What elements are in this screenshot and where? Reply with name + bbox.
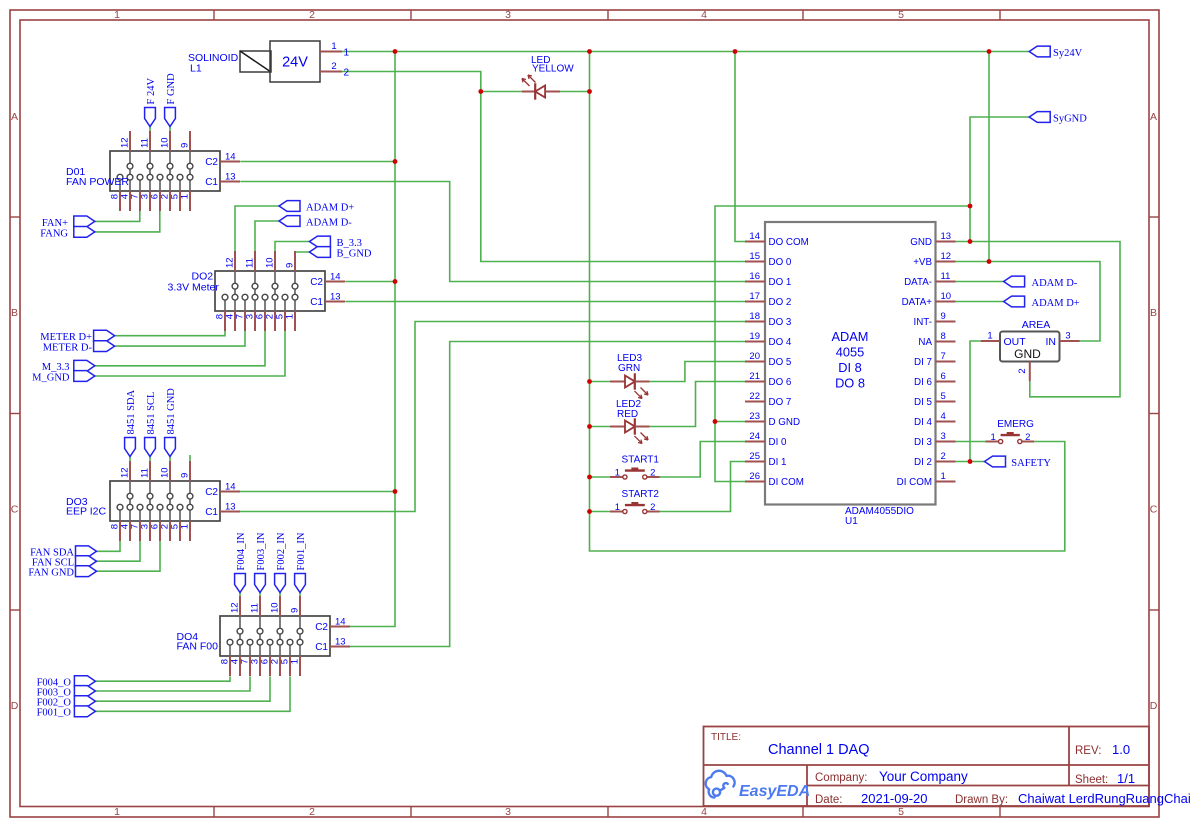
svg-text:1: 1 xyxy=(285,314,296,319)
wire F001_O flag to DO4 pin 5 xyxy=(95,677,290,712)
junction at 589.5,381.5 xyxy=(587,379,592,384)
junction at 395,491.5 xyxy=(393,489,398,494)
svg-text:DI 6: DI 6 xyxy=(914,377,933,388)
net flag F001_IN xyxy=(295,574,306,593)
net flag METER D- xyxy=(94,341,115,352)
svg-text:ADAM D-: ADAM D- xyxy=(1032,278,1078,289)
svg-text:DI 1: DI 1 xyxy=(769,457,787,468)
svg-text:4: 4 xyxy=(941,411,946,422)
net flag FAN SDA xyxy=(76,546,97,557)
svg-text:F001_O: F001_O xyxy=(37,708,72,719)
svg-text:DO COM: DO COM xyxy=(769,237,809,248)
junction at 989,261.5 xyxy=(987,259,992,264)
svg-text:2: 2 xyxy=(309,9,315,21)
svg-text:3: 3 xyxy=(941,431,946,442)
svg-text:Sheet:: Sheet: xyxy=(1075,774,1108,786)
title block xyxy=(704,727,1150,807)
svg-text:9: 9 xyxy=(180,473,191,478)
svg-text:1.0: 1.0 xyxy=(1112,742,1130,757)
net flag METER D+ xyxy=(94,330,115,341)
svg-text:Company:: Company: xyxy=(815,772,867,784)
svg-text:5: 5 xyxy=(898,9,904,21)
LED LED2 RED xyxy=(610,418,650,443)
net flag FAN+ xyxy=(74,216,95,227)
svg-text:12: 12 xyxy=(230,602,241,613)
connector DO3 EEP I2C xyxy=(110,461,240,541)
svg-text:DO 1: DO 1 xyxy=(769,277,792,288)
svg-text:F001_IN: F001_IN xyxy=(296,532,307,570)
svg-text:11: 11 xyxy=(245,258,256,268)
svg-text:C1: C1 xyxy=(310,297,323,308)
push button START1 xyxy=(610,468,660,479)
wire DO4 C1 to ADAM DO 4 pin 19 xyxy=(350,342,745,647)
junction at 589.5,426.5 xyxy=(587,424,592,429)
svg-text:9: 9 xyxy=(290,608,301,613)
net flag ADAM D+ xyxy=(279,201,300,212)
junction at 970,206 xyxy=(968,204,973,209)
connector DO2 3.3V Meter xyxy=(215,251,345,331)
svg-text:C2: C2 xyxy=(205,487,218,498)
U1 right pin 1 DI COM xyxy=(936,481,956,483)
svg-text:13: 13 xyxy=(225,502,236,513)
U1 left pin 20 DO 5 xyxy=(745,361,765,363)
net flag F002_IN xyxy=(275,574,286,593)
svg-text:Date:: Date: xyxy=(815,794,843,806)
svg-text:14: 14 xyxy=(330,272,341,283)
LED LED3 GRN xyxy=(610,373,650,398)
op-amp U1 ADAM4055DIO IC body xyxy=(765,222,936,505)
net flag 8451 SDA xyxy=(125,438,136,457)
connector DO4 FAN F00 xyxy=(220,596,350,676)
svg-text:B_GND: B_GND xyxy=(337,248,372,259)
svg-text:Chaiwat LerdRungRuangChai: Chaiwat LerdRungRuangChai xyxy=(1018,791,1191,806)
U1 right pin 13 GND xyxy=(936,241,956,243)
svg-text:B: B xyxy=(1150,307,1157,319)
wire SyGND branch to DI COM pin 26 xyxy=(715,206,970,482)
wire solenoid pin2 to LED-yellow junction and down to DO 0 line xyxy=(342,72,745,262)
svg-text:DO 5: DO 5 xyxy=(769,357,792,368)
wire FAN+ flag to D01 pin 7 xyxy=(95,211,140,221)
svg-text:YELLOW: YELLOW xyxy=(532,64,574,75)
wire LED3 cathode to ADAM DO 5 pin 20 xyxy=(650,362,745,382)
wire GND pin13 to AREA GND pin2 xyxy=(956,242,1121,397)
svg-text:14: 14 xyxy=(225,482,236,493)
net flag SAFETY xyxy=(985,456,1006,467)
net flag ADAM D- xyxy=(279,216,300,227)
svg-text:5: 5 xyxy=(941,391,946,402)
svg-text:F004_IN: F004_IN xyxy=(236,532,247,570)
svg-text:RED: RED xyxy=(617,409,638,420)
svg-text:7: 7 xyxy=(941,351,946,362)
svg-text:REV:: REV: xyxy=(1075,745,1101,757)
svg-text:F 24V: F 24V xyxy=(146,78,157,105)
U1 left pin 15 DO 0 xyxy=(745,261,765,263)
svg-text:D: D xyxy=(1150,700,1158,712)
wire LED2 cathode to ADAM DO 6 pin 21 xyxy=(650,382,745,427)
wire Sy24V drop to +VB line xyxy=(988,52,990,262)
solenoid L1 24V body box xyxy=(270,41,320,82)
svg-text:DO 0: DO 0 xyxy=(769,257,792,268)
svg-text:14: 14 xyxy=(225,152,236,163)
net flag FAN GND xyxy=(76,566,97,577)
svg-text:A: A xyxy=(11,111,18,123)
AREA GND pin 2 stub xyxy=(1029,362,1031,382)
junction at 735,51.5 xyxy=(733,49,738,54)
wire AREA GND OUT pin1 down to SAFETY net xyxy=(970,341,981,462)
svg-text:+VB: +VB xyxy=(913,257,932,268)
svg-text:ADAM: ADAM xyxy=(832,329,869,344)
svg-text:DO 3: DO 3 xyxy=(769,317,792,328)
svg-text:F GND: F GND xyxy=(166,73,177,105)
svg-text:D GND: D GND xyxy=(769,417,801,428)
U1 right pin 9 INT- xyxy=(936,321,956,323)
wire FAN SCL flag to DO3 pin 7 xyxy=(97,541,141,561)
svg-text:2: 2 xyxy=(1017,368,1028,373)
svg-text:C1: C1 xyxy=(205,507,218,518)
svg-text:1: 1 xyxy=(180,194,191,199)
svg-text:DATA-: DATA- xyxy=(904,277,932,288)
wire DO2 C2 to 24V vertical xyxy=(345,281,395,283)
svg-text:DI 7: DI 7 xyxy=(914,357,932,368)
svg-text:1: 1 xyxy=(331,41,336,52)
svg-text:2: 2 xyxy=(650,502,655,513)
net flag SyGND xyxy=(1029,112,1050,123)
AREA GND pin 3 IN stub xyxy=(1060,340,1080,342)
svg-text:F002_IN: F002_IN xyxy=(276,532,287,570)
wire ADAM D+ flag to DO2 pin 12 xyxy=(235,206,279,251)
solenoid pin 2 stub xyxy=(320,71,342,73)
svg-text:10: 10 xyxy=(265,257,276,268)
wire LED2 anode from x590 rail xyxy=(590,426,611,428)
wire DO COM pin14 drop from top rail xyxy=(735,52,745,242)
junction at 395,51.5 xyxy=(393,49,398,54)
connector D01 FAN POWER xyxy=(110,131,240,211)
svg-text:17: 17 xyxy=(749,291,760,302)
svg-text:1: 1 xyxy=(615,468,620,479)
svg-text:2021-09-20: 2021-09-20 xyxy=(861,791,928,806)
net flag F004_IN xyxy=(235,574,246,593)
svg-text:Channel 1 DAQ: Channel 1 DAQ xyxy=(768,742,870,758)
push button EMERG xyxy=(985,433,1034,444)
U1 left pin 24 DI 0 xyxy=(745,441,765,443)
svg-text:TITLE:: TITLE: xyxy=(711,732,741,743)
junction at 589.5,477 xyxy=(587,475,592,480)
U1 right pin 5 DI 5 xyxy=(936,401,956,403)
svg-text:Your Company: Your Company xyxy=(879,769,968,784)
svg-text:25: 25 xyxy=(749,451,760,462)
wire flag F003_IN to DO4 pin 11 stub xyxy=(259,593,261,598)
svg-text:START1: START1 xyxy=(622,455,660,466)
svg-text:9: 9 xyxy=(285,263,296,268)
solenoid L1 coil box xyxy=(240,51,271,72)
svg-text:3: 3 xyxy=(505,9,511,21)
svg-text:13: 13 xyxy=(335,637,346,648)
svg-text:19: 19 xyxy=(749,331,760,342)
wire LED3 anode from x590 rail xyxy=(590,381,611,383)
svg-text:1: 1 xyxy=(180,524,191,529)
wire B_GND flag to DO2 pin 9 xyxy=(295,252,309,253)
svg-text:ADAM D+: ADAM D+ xyxy=(1032,298,1080,309)
svg-text:FAN GND: FAN GND xyxy=(28,568,74,579)
svg-text:EasyEDA: EasyEDA xyxy=(739,783,810,800)
net flag F 24V xyxy=(145,108,156,127)
svg-text:1: 1 xyxy=(344,48,350,59)
wire flag 8451 SDA to DO3 pin 12 stub xyxy=(129,457,131,463)
svg-text:DI 5: DI 5 xyxy=(914,397,933,408)
svg-text:15: 15 xyxy=(749,251,760,262)
svg-text:START2: START2 xyxy=(622,489,660,500)
svg-text:1: 1 xyxy=(615,502,620,513)
svg-text:DI COM: DI COM xyxy=(897,477,932,488)
net flag F004_O xyxy=(74,676,95,687)
svg-text:11: 11 xyxy=(140,138,151,148)
svg-text:2: 2 xyxy=(344,68,350,79)
svg-text:1: 1 xyxy=(941,471,946,482)
svg-text:M_GND: M_GND xyxy=(32,372,70,383)
svg-text:10: 10 xyxy=(160,137,171,148)
svg-text:DI 8: DI 8 xyxy=(838,360,861,375)
svg-text:GND: GND xyxy=(910,237,932,248)
svg-text:F003_IN: F003_IN xyxy=(256,532,267,570)
svg-text:FAN POWER: FAN POWER xyxy=(66,176,129,188)
wire flag F 24V to D01 pin 11 stub xyxy=(149,127,151,133)
junction at 395,281.5 xyxy=(393,279,398,284)
wire flag F GND to D01 pin 10 stub xyxy=(169,127,171,133)
net flag FANG xyxy=(74,227,95,238)
net flag M_3.3 xyxy=(74,360,95,371)
wire DO3 C1 to ADAM DO 3 pin 18 xyxy=(240,322,745,512)
svg-text:U1: U1 xyxy=(845,516,858,527)
net flag F002_O xyxy=(74,696,95,707)
wire x590 vertical rail down to bottom rail to EMERG pin2 xyxy=(590,52,1065,552)
svg-text:21: 21 xyxy=(749,371,760,382)
wire D01 C1 to ADAM DO 1 pin 16 xyxy=(240,182,745,282)
junction at 480.8,91.5 xyxy=(478,89,483,94)
net flag 8451 GND xyxy=(165,438,176,457)
svg-text:4055: 4055 xyxy=(836,345,864,360)
wire DI 3 pin3 to EMERG pin1 xyxy=(956,441,986,443)
svg-text:C2: C2 xyxy=(315,622,328,633)
svg-text:3: 3 xyxy=(505,806,511,818)
junction at 589.5,51.5 xyxy=(587,49,592,54)
U1 left pin 19 DO 4 xyxy=(745,341,765,343)
U1 left pin 18 DO 3 xyxy=(745,321,765,323)
svg-text:9: 9 xyxy=(180,143,191,148)
svg-text:DI 0: DI 0 xyxy=(769,437,788,448)
svg-text:SyGND: SyGND xyxy=(1053,113,1087,124)
svg-text:26: 26 xyxy=(749,471,760,482)
net flag B_GND xyxy=(309,247,330,258)
svg-text:ADAM D-: ADAM D- xyxy=(306,217,352,228)
wire LED yellow anode link from junction xyxy=(481,91,522,93)
U1 right pin 2 DI 2 xyxy=(936,461,956,463)
svg-text:DO 4: DO 4 xyxy=(769,337,792,348)
U1 left pin 21 DO 6 xyxy=(745,381,765,383)
svg-text:8451 SDA: 8451 SDA xyxy=(126,389,137,434)
svg-text:8451 SCL: 8451 SCL xyxy=(146,392,157,435)
svg-text:DO 7: DO 7 xyxy=(769,397,792,408)
svg-text:13: 13 xyxy=(941,231,952,242)
wire F003_O flag to DO4 pin 7 xyxy=(95,677,250,692)
svg-text:AREA: AREA xyxy=(1022,319,1051,331)
svg-text:C1: C1 xyxy=(205,177,218,188)
svg-text:SAFETY: SAFETY xyxy=(1011,458,1051,469)
svg-text:23: 23 xyxy=(749,411,760,422)
junction at 589.5,91.5 xyxy=(587,89,592,94)
junction at 715,421.5 xyxy=(713,419,718,424)
svg-text:Drawn By:: Drawn By: xyxy=(955,794,1008,806)
wire DI 2 pin2 to SAFETY flag xyxy=(956,461,985,463)
wire flag F001_IN to DO4 pin 9 stub xyxy=(299,593,301,598)
wire METER D- flag to DO2 pin 7 xyxy=(115,331,245,346)
wire FAN GND flag to DO3 pin 6 xyxy=(97,541,161,571)
wire DO2 C1 to ADAM DO 2 pin 17 xyxy=(345,301,745,303)
LED LED YELLOW xyxy=(522,75,560,100)
wire 24V vertical x395 feeding connector C2 pins xyxy=(350,52,395,627)
svg-text:6: 6 xyxy=(941,371,946,382)
svg-text:1: 1 xyxy=(114,9,120,21)
svg-text:NA: NA xyxy=(918,337,932,348)
net flag F003_IN xyxy=(255,574,266,593)
svg-text:D: D xyxy=(11,700,19,712)
svg-text:B: B xyxy=(11,307,18,319)
wire ADAM D- flag to DO2 pin 11 xyxy=(255,221,279,251)
wire DATA+ pin10 to ADAM D+ flag xyxy=(956,301,1004,303)
svg-text:FAN F00: FAN F00 xyxy=(177,641,219,653)
U1 left pin 23 D GND xyxy=(745,421,765,423)
wire F004_O flag to DO4 pin 8 xyxy=(95,677,230,682)
svg-text:5: 5 xyxy=(898,806,904,818)
svg-text:FANG: FANG xyxy=(40,228,68,239)
svg-text:ADAM D+: ADAM D+ xyxy=(306,202,354,213)
wire D GND pin23 branch xyxy=(715,421,745,423)
svg-text:EEP I2C: EEP I2C xyxy=(66,506,106,518)
svg-text:11: 11 xyxy=(250,603,261,613)
wire F002_O flag to DO4 pin 6 xyxy=(95,677,270,702)
svg-text:2: 2 xyxy=(309,806,315,818)
svg-text:L1: L1 xyxy=(190,63,202,75)
svg-text:12: 12 xyxy=(225,257,236,268)
svg-text:22: 22 xyxy=(749,391,760,402)
wire B_3.3 flag to DO2 pin 10 xyxy=(275,242,309,252)
wire START2 pin2 to ADAM DI 1 pin 25 xyxy=(660,462,745,512)
svg-text:FAN+: FAN+ xyxy=(42,218,68,229)
svg-text:20: 20 xyxy=(749,351,760,362)
svg-text:10: 10 xyxy=(270,602,281,613)
svg-text:2: 2 xyxy=(331,61,336,72)
svg-text:24: 24 xyxy=(749,431,760,442)
wire FANG flag to D01 pin 6 xyxy=(95,211,160,232)
U1 right pin 7 DI 7 xyxy=(936,361,956,363)
wire START2 pin1 from x590 rail xyxy=(590,511,610,513)
net flag F001_O xyxy=(74,706,95,717)
wire DATA- pin11 to ADAM D- flag xyxy=(956,281,1004,283)
svg-text:10: 10 xyxy=(941,291,952,302)
net flag M_GND xyxy=(74,371,95,382)
svg-text:DO 6: DO 6 xyxy=(769,377,792,388)
EasyEDA logo xyxy=(706,771,735,798)
svg-text:GND: GND xyxy=(1014,347,1041,361)
svg-text:METER D+: METER D+ xyxy=(40,332,92,343)
wire flag F004_IN to DO4 pin 12 stub xyxy=(239,593,241,598)
svg-text:METER D-: METER D- xyxy=(43,343,93,354)
wire flag 8451 GND to DO3 pin 10 stub xyxy=(169,457,171,463)
wire flag 8451 SCL to DO3 pin 11 stub xyxy=(149,457,151,463)
svg-text:12: 12 xyxy=(120,467,131,478)
svg-text:4: 4 xyxy=(701,806,707,818)
wire START1 pin1 from x590 rail xyxy=(590,476,610,478)
U1 right pin 3 DI 3 xyxy=(936,441,956,443)
svg-text:IN: IN xyxy=(1046,336,1057,348)
U1 right pin 8 NA xyxy=(936,341,956,343)
net flag FAN SCL xyxy=(76,556,97,567)
U1 left pin 17 DO 2 xyxy=(745,301,765,303)
net flag F GND xyxy=(165,108,176,127)
wire START1 pin2 to ADAM DI 0 pin 24 xyxy=(660,442,745,478)
svg-text:C: C xyxy=(1150,504,1158,516)
svg-text:1: 1 xyxy=(114,806,120,818)
svg-text:Sy24V: Sy24V xyxy=(1053,48,1083,59)
wire M_GND flag to DO2 pin 5 xyxy=(95,331,285,376)
svg-text:INT-: INT- xyxy=(913,317,932,328)
svg-text:12: 12 xyxy=(941,251,952,262)
wire FAN SDA flag to DO3 pin 8 xyxy=(97,541,121,551)
svg-text:GRN: GRN xyxy=(618,363,640,374)
solenoid L1 coil diagonal xyxy=(240,51,271,72)
net flag ADAM D- xyxy=(1004,276,1025,287)
wire LED yellow cathode to x590 vertical xyxy=(560,91,589,93)
svg-text:DO 8: DO 8 xyxy=(835,376,865,391)
U1 right pin 11 DATA- xyxy=(936,281,956,283)
svg-text:C: C xyxy=(11,504,19,516)
push button START2 xyxy=(610,503,660,514)
junction at 589.5,511.5 xyxy=(587,509,592,514)
svg-text:DI 2: DI 2 xyxy=(914,457,932,468)
wire +24V top rail from solenoid pin1 to Sy24V flag xyxy=(342,51,1029,53)
wire +VB pin12 to AREA GND IN pin3 xyxy=(956,262,1101,342)
svg-text:14: 14 xyxy=(749,231,760,242)
junction at 395,161.5 xyxy=(393,159,398,164)
svg-text:14: 14 xyxy=(335,617,346,628)
net flag ADAM D+ xyxy=(1004,296,1025,307)
junction at 970,241.5 xyxy=(968,239,973,244)
svg-text:1: 1 xyxy=(987,331,992,342)
svg-text:C2: C2 xyxy=(205,157,218,168)
svg-text:16: 16 xyxy=(749,271,760,282)
svg-text:1: 1 xyxy=(290,659,301,664)
svg-text:8451 GND: 8451 GND xyxy=(166,388,177,435)
wire SyGND flag to GND net and DI COM pin26 xyxy=(970,117,1029,242)
U1 right pin 12 +VB xyxy=(936,261,956,263)
svg-text:EMERG: EMERG xyxy=(997,419,1034,430)
wire flag F002_IN to DO4 pin 10 stub xyxy=(279,593,281,598)
svg-text:2: 2 xyxy=(650,468,655,479)
svg-text:4: 4 xyxy=(701,9,707,21)
svg-text:DATA+: DATA+ xyxy=(902,297,933,308)
AREA GND box body xyxy=(1000,332,1060,362)
svg-text:11: 11 xyxy=(941,271,951,282)
wire M_3.3 flag to DO2 pin 6 xyxy=(95,331,265,366)
svg-text:13: 13 xyxy=(225,172,236,183)
U1 left pin 26 DI COM xyxy=(745,481,765,483)
wire stub DO3 pin 9 dangling xyxy=(189,455,191,462)
net flag 8451 SCL xyxy=(145,438,156,457)
svg-text:DI 3: DI 3 xyxy=(914,437,933,448)
svg-text:24V: 24V xyxy=(282,55,308,71)
U1 right pin 6 DI 6 xyxy=(936,381,956,383)
U1 left pin 16 DO 1 xyxy=(745,281,765,283)
U1 left pin 25 DI 1 xyxy=(745,461,765,463)
